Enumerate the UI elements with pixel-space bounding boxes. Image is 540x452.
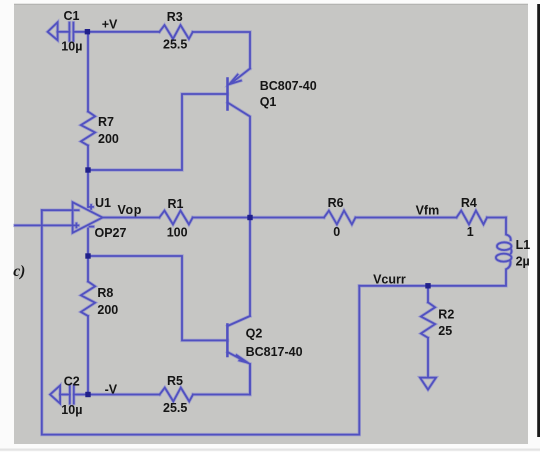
svg-text:Vop: Vop <box>118 203 142 217</box>
svg-text:100: 100 <box>167 226 188 240</box>
svg-text:R8: R8 <box>97 286 113 300</box>
svg-text:R6: R6 <box>328 196 344 210</box>
svg-text:c): c) <box>13 263 25 280</box>
svg-text:Q2: Q2 <box>246 327 263 341</box>
svg-text:2µ: 2µ <box>516 255 530 269</box>
svg-text:Q1: Q1 <box>260 95 277 109</box>
svg-text:C2: C2 <box>64 375 80 389</box>
svg-text:1: 1 <box>467 225 474 239</box>
svg-text:Vcurr: Vcurr <box>373 273 406 287</box>
svg-text:U1: U1 <box>95 196 111 210</box>
svg-text:25.5: 25.5 <box>163 401 187 415</box>
svg-text:10µ: 10µ <box>61 39 82 53</box>
svg-text:10µ: 10µ <box>61 403 82 417</box>
svg-text:200: 200 <box>97 303 118 317</box>
svg-text:OP27: OP27 <box>95 226 127 240</box>
svg-text:BC807-40: BC807-40 <box>260 79 317 93</box>
svg-text:0: 0 <box>333 225 340 239</box>
svg-text:R4: R4 <box>461 196 477 210</box>
svg-text:R2: R2 <box>438 307 454 321</box>
svg-text:L1: L1 <box>516 238 531 252</box>
svg-text:BC817-40: BC817-40 <box>246 345 303 359</box>
svg-text:+V: +V <box>102 17 118 31</box>
svg-text:R3: R3 <box>167 10 183 24</box>
svg-text:25.5: 25.5 <box>163 37 187 51</box>
svg-text:-V: -V <box>105 382 118 396</box>
svg-text:R1: R1 <box>168 197 184 211</box>
svg-text:25: 25 <box>438 324 452 338</box>
svg-text:R5: R5 <box>167 374 183 388</box>
svg-text:R7: R7 <box>98 115 114 129</box>
svg-text:200: 200 <box>98 132 119 146</box>
svg-text:Vfm: Vfm <box>416 204 440 218</box>
svg-text:C1: C1 <box>64 9 80 23</box>
